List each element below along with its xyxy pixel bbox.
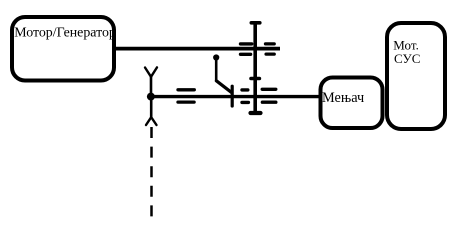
svg-text:СУС: СУС: [394, 51, 420, 66]
svg-text:Мотор/Генератор: Мотор/Генератор: [14, 26, 116, 41]
svg-text:Мењач: Мењач: [322, 90, 364, 106]
